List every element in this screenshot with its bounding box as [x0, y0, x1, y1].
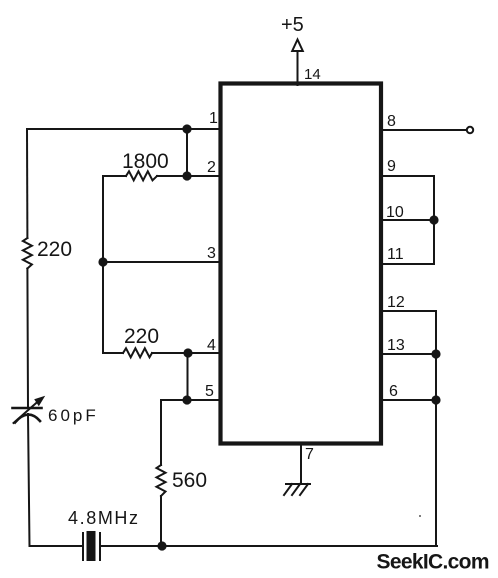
svg-text:7: 7 [305, 446, 314, 463]
wire junction pin1-pin2 [186, 129, 188, 176]
power +5 triangle [292, 40, 303, 52]
svg-text:11: 11 [387, 246, 404, 263]
wire 560 vertical bottom [160, 496, 162, 546]
svg-text:SeekIC.com: SeekIC.com [377, 551, 490, 574]
svg-text:560: 560 [172, 469, 207, 492]
wire bottom horizontal right [101, 545, 437, 547]
svg-text:12: 12 [387, 294, 405, 311]
ground [284, 484, 310, 495]
wire left vertical bottom [28, 414, 30, 546]
svg-text:14: 14 [304, 66, 321, 83]
node pin5 junction dot [182, 395, 191, 404]
svg-text:+5: +5 [281, 14, 304, 36]
svg-text:4: 4 [207, 337, 216, 354]
wire pin4 horizontal [103, 352, 221, 354]
wire pin14 vertical [297, 51, 299, 85]
svg-text:3: 3 [207, 245, 216, 262]
svg-text:9: 9 [387, 158, 396, 175]
wire pin13 horizontal [383, 353, 436, 355]
svg-text:1: 1 [209, 110, 218, 127]
wire pin5 horizontal [161, 399, 221, 401]
node pin1-pin2 junction dot [182, 124, 191, 133]
wire junction pin4-pin5 [187, 353, 189, 400]
wire pin12 horizontal [383, 310, 436, 312]
wire pin6 horizontal [383, 399, 436, 401]
resistor R1 220 [23, 238, 32, 269]
svg-text:10: 10 [386, 204, 404, 221]
svg-text:5: 5 [205, 383, 214, 400]
crystal Y1 4.8MHz [83, 531, 100, 561]
wire pin1 horizontal [27, 128, 221, 130]
svg-text:8: 8 [387, 113, 396, 130]
svg-text:2: 2 [207, 159, 216, 176]
node pin3 junction dot [98, 257, 107, 266]
capacitor C1 60pF variable [13, 396, 46, 423]
wire pin9 horizontal [383, 175, 434, 177]
wire 560 vertical top [160, 400, 162, 465]
wire left vertical mid [26, 269, 29, 409]
svg-text:13: 13 [387, 337, 405, 354]
node pin6 junction dot [431, 395, 440, 404]
wire left vertical top [26, 129, 28, 238]
svg-text:1800: 1800 [122, 150, 169, 173]
op-amp U1 [221, 84, 382, 444]
svg-text:60pF: 60pF [48, 406, 99, 425]
terminal output [467, 127, 473, 133]
svg-text:220: 220 [37, 238, 72, 261]
wire bottom horizontal left [30, 545, 83, 547]
resistor R4 560 [157, 465, 166, 496]
wire right vertical 12-bottom [435, 311, 437, 546]
wire pin11 horizontal [383, 263, 434, 265]
svg-text:4.8MHz: 4.8MHz [68, 508, 140, 528]
node pin2 junction dot [182, 171, 191, 180]
node pin4 junction dot [183, 348, 192, 357]
wire vertical x103 [102, 176, 104, 353]
svg-text:220: 220 [124, 325, 159, 348]
wire pin3 horizontal [103, 261, 221, 263]
wire pin10 horizontal [383, 219, 434, 221]
node bottom junction dot [157, 541, 166, 550]
wire pin8 horizontal [383, 129, 467, 131]
node pin10 junction dot [429, 215, 438, 224]
wire pin7 vertical [300, 444, 302, 483]
svg-text:6: 6 [389, 383, 398, 400]
resistor R2 1800 [126, 171, 157, 180]
node pin13 junction dot [431, 349, 440, 358]
resistor R3 220 [123, 348, 152, 357]
speck [419, 515, 421, 517]
wire pin2 horizontal [103, 175, 221, 177]
wire right vertical 9-11 [433, 176, 435, 264]
